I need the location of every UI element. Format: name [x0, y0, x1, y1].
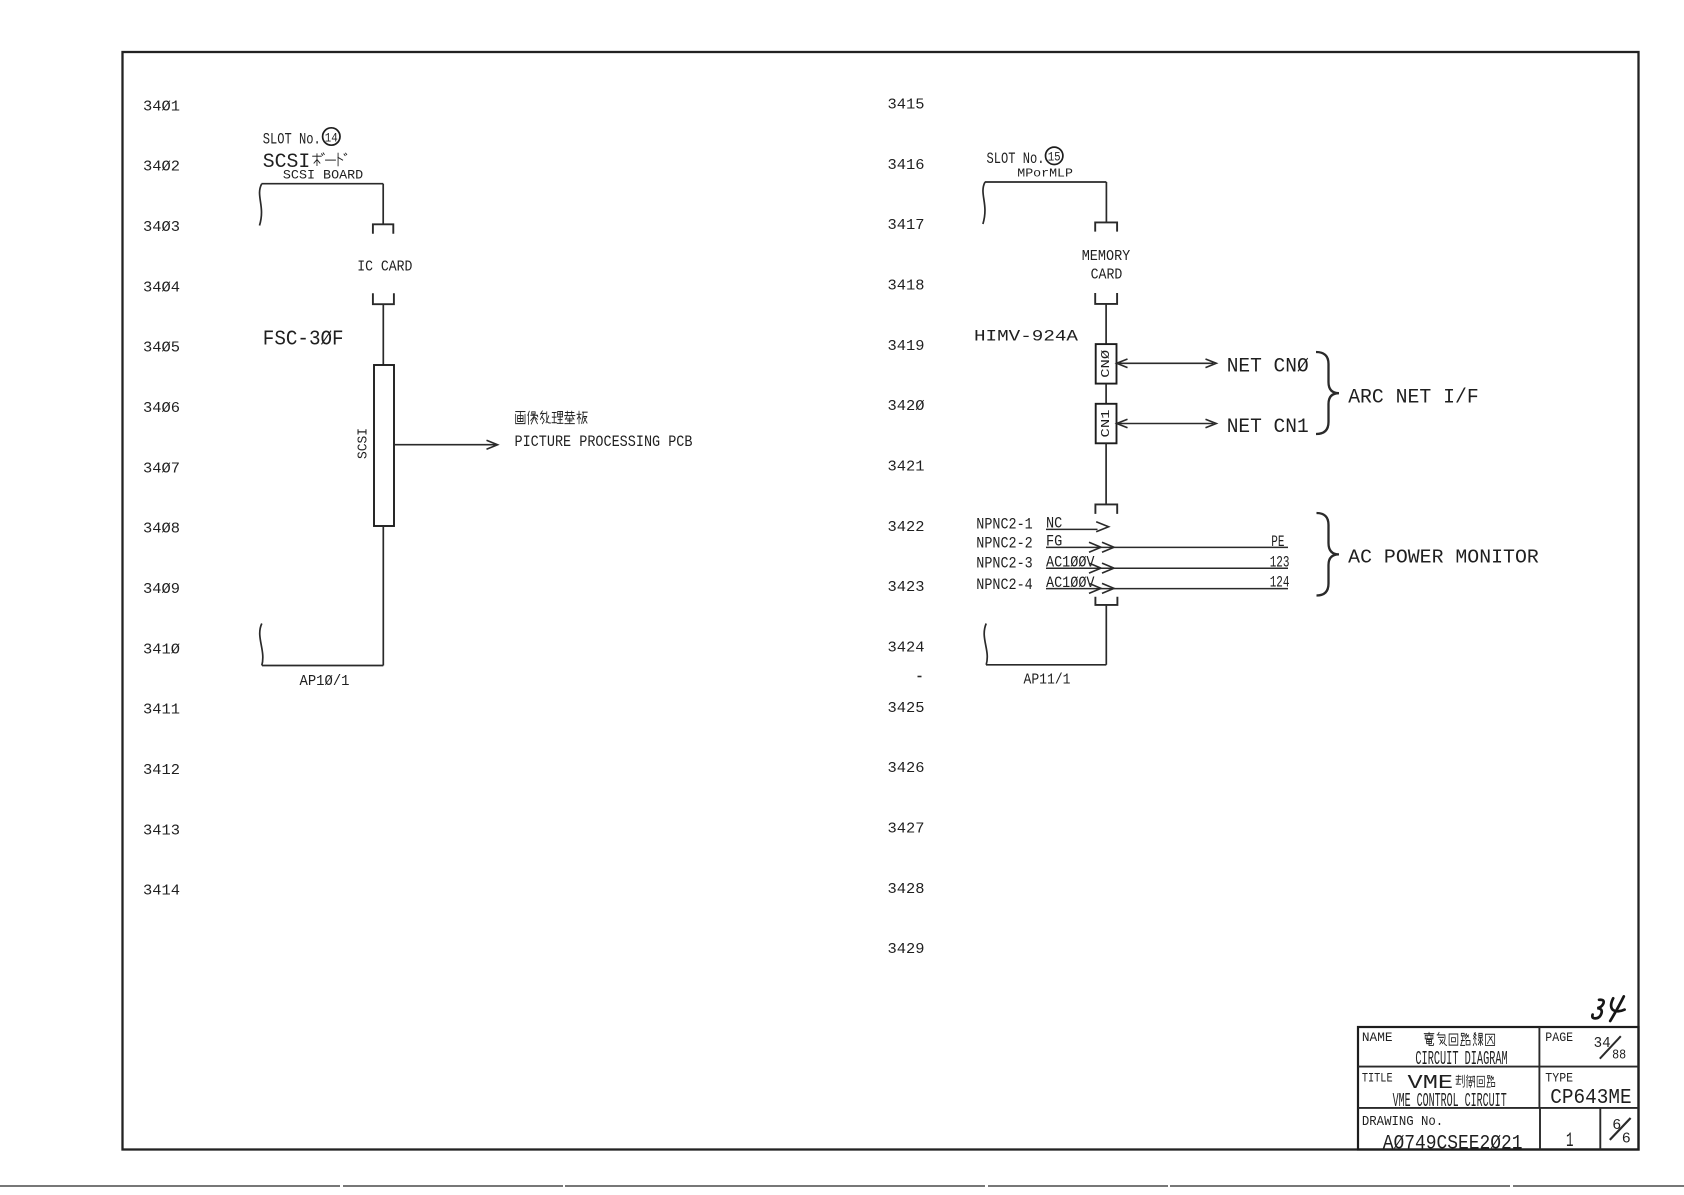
wire: NPNC2 down to AP11 rail	[1105, 605, 1107, 665]
wire NPNC2-3 to terminal 123	[1046, 567, 1288, 569]
svg-text:341Ø: 341Ø	[143, 641, 180, 658]
arrowhead	[487, 440, 498, 449]
svg-text:ARC NET I/F: ARC NET I/F	[1348, 387, 1479, 410]
handwritten page number 34	[1592, 996, 1624, 1021]
svg-text:6: 6	[1622, 1130, 1631, 1147]
connector: IC CARD plug (top half)	[373, 224, 393, 234]
wire: memory card to CN0	[1105, 304, 1107, 344]
wire: NET CN1 double arrow	[1119, 423, 1214, 425]
title block page/rev divider	[1599, 1108, 1601, 1150]
svg-text:3412: 3412	[143, 762, 180, 779]
svg-text:IC CARD: IC CARD	[357, 259, 412, 275]
double chevron arrow on NPNC2-4 wire	[1089, 583, 1101, 593]
svg-text:HIMV-924A: HIMV-924A	[974, 327, 1078, 345]
svg-text:NET CNØ: NET CNØ	[1227, 356, 1309, 379]
wire: NET CN0 double arrow	[1119, 362, 1214, 364]
svg-text:NAME: NAME	[1362, 1030, 1393, 1045]
svg-text:NET CN1: NET CN1	[1227, 416, 1309, 439]
svg-text:PICTURE PROCESSING PCB: PICTURE PROCESSING PCB	[515, 433, 693, 451]
svg-text:MPorMLP: MPorMLP	[1017, 167, 1073, 180]
svg-text:MEMORY: MEMORY	[1082, 248, 1131, 265]
svg-text:342Ø: 342Ø	[888, 398, 925, 415]
tick mark below 3424	[918, 676, 922, 678]
label picture processing PCB (japanese)	[516, 412, 525, 424]
svg-text:NPNC2-3: NPNC2-3	[976, 555, 1032, 573]
wire: AP10 bottom rail	[262, 665, 383, 667]
wire NPNC2-2 to terminal PE	[1046, 546, 1288, 548]
svg-text:14: 14	[325, 131, 338, 145]
wire: CN0 to CN1	[1105, 384, 1107, 404]
brace AC POWER MONITOR	[1317, 513, 1340, 596]
svg-text:34Ø7: 34Ø7	[143, 460, 180, 477]
connector CN0	[1096, 344, 1117, 384]
svg-text:3415: 3415	[888, 97, 925, 114]
svg-text:34Ø6: 34Ø6	[143, 400, 180, 417]
svg-text:SLOT No.: SLOT No.	[263, 130, 321, 148]
svg-text:FSC-3ØF: FSC-3ØF	[263, 328, 344, 352]
wire NPNC2-1 stub with arrow	[1046, 528, 1098, 530]
svg-text:34Ø1: 34Ø1	[143, 98, 180, 115]
brace ARC NET I/F	[1316, 352, 1339, 434]
svg-text:34Ø9: 34Ø9	[143, 581, 180, 598]
svg-text:34Ø5: 34Ø5	[143, 340, 180, 357]
svg-text:124: 124	[1270, 574, 1290, 592]
connector: NPNC2 receptacle (bottom half)	[1095, 597, 1117, 605]
break squiggle at SCSI board rail	[260, 184, 262, 226]
wire: SCSI board bus top rail	[261, 183, 383, 185]
svg-text:CN1: CN1	[1099, 410, 1113, 438]
wire: arrow to picture processing PCB	[394, 444, 496, 446]
connector: MEMORY CARD plug (top half)	[1095, 222, 1117, 231]
svg-text:3427: 3427	[888, 821, 925, 838]
svg-text:CIRCUIT DIAGRAM: CIRCUIT DIAGRAM	[1415, 1048, 1507, 1070]
svg-text:SCSI BOARD: SCSI BOARD	[283, 169, 363, 183]
svg-text:34Ø3: 34Ø3	[143, 219, 180, 236]
svg-text:SCSI: SCSI	[357, 428, 372, 459]
svg-text:3411: 3411	[143, 702, 180, 719]
component: SCSI interface (vertical card)	[374, 365, 394, 526]
svg-text:3424: 3424	[888, 640, 925, 657]
svg-text:3428: 3428	[888, 881, 925, 898]
wire: AP11 bottom rail	[986, 664, 1106, 666]
svg-text:TITLE: TITLE	[1362, 1071, 1393, 1086]
double chevron arrow on NPNC2-2 wire	[1089, 542, 1101, 552]
svg-text:3413: 3413	[143, 822, 180, 839]
svg-text:TYPE: TYPE	[1545, 1071, 1573, 1086]
title block row divider 1	[1358, 1066, 1639, 1068]
svg-text:3429: 3429	[888, 941, 925, 958]
wire: CN1 down to NPNC2 connector	[1105, 443, 1107, 504]
svg-text:CNØ: CNØ	[1099, 350, 1113, 378]
wire: IC CARD to SCSI interface box	[382, 304, 384, 365]
svg-text:3423: 3423	[888, 579, 925, 596]
svg-text:SLOT No.: SLOT No.	[987, 150, 1045, 168]
wire: drop to IC CARD connector	[382, 184, 384, 225]
title block row divider 2	[1358, 1107, 1639, 1109]
svg-text:CP643ME: CP643ME	[1550, 1087, 1631, 1110]
svg-text:NPNC2-1: NPNC2-1	[976, 515, 1032, 533]
svg-text:3417: 3417	[888, 217, 925, 234]
circled slot number 15	[1046, 147, 1063, 164]
svg-text:34Ø4: 34Ø4	[143, 279, 180, 296]
connector: MEMORY CARD receptacle (bottom half)	[1095, 293, 1117, 304]
svg-text:NPNC2-4: NPNC2-4	[976, 576, 1032, 594]
title block column divider lower	[1539, 1108, 1541, 1150]
connector: IC CARD receptacle (bottom half)	[373, 293, 394, 304]
svg-text:15: 15	[1048, 151, 1061, 165]
svg-text:NPNC2-2: NPNC2-2	[976, 535, 1032, 553]
wire: SCSI box down to AP10 rail	[382, 526, 384, 666]
svg-text:AP1Ø/1: AP1Ø/1	[300, 674, 350, 690]
break squiggle at MP rail	[983, 182, 985, 224]
svg-text:3416: 3416	[888, 157, 925, 174]
label circuit diagram (japanese)	[1424, 1032, 1434, 1045]
svg-text:123: 123	[1270, 553, 1290, 571]
connector CN1	[1096, 404, 1117, 444]
svg-text:3418: 3418	[888, 278, 925, 295]
double chevron arrow on NPNC2-3 wire	[1089, 563, 1101, 573]
break squiggle at AP11 rail	[984, 624, 987, 665]
svg-text:34Ø2: 34Ø2	[143, 159, 180, 176]
svg-text:3421: 3421	[888, 459, 925, 476]
svg-text:3414: 3414	[143, 883, 180, 900]
svg-text:34Ø8: 34Ø8	[143, 521, 180, 538]
break squiggle at AP10 rail	[260, 624, 263, 666]
svg-text:PAGE: PAGE	[1545, 1030, 1573, 1045]
wire: MP bus top rail	[985, 181, 1107, 183]
svg-text:3419: 3419	[888, 338, 925, 355]
svg-text:PE: PE	[1271, 533, 1284, 551]
svg-text:AC POWER MONITOR: AC POWER MONITOR	[1348, 546, 1539, 568]
svg-text:3422: 3422	[888, 519, 925, 536]
svg-text:3426: 3426	[888, 760, 925, 777]
connector: NPNC2 plug (top half)	[1095, 504, 1117, 514]
svg-text:3425: 3425	[888, 700, 925, 717]
svg-text:1: 1	[1566, 1130, 1574, 1153]
wire NPNC2-4 to terminal 124	[1046, 588, 1288, 590]
wire: drop to MEMORY CARD connector	[1105, 182, 1107, 222]
title block outer frame	[1358, 1027, 1639, 1150]
svg-text:AP11/1: AP11/1	[1024, 673, 1071, 689]
scanner page edge (dashed)	[0, 1185, 1684, 1187]
svg-text:DRAWING No.: DRAWING No.	[1362, 1114, 1443, 1130]
title block column divider upper	[1538, 1027, 1540, 1108]
svg-text:88: 88	[1612, 1048, 1626, 1063]
circled slot number 14	[323, 128, 340, 145]
svg-text:CARD: CARD	[1091, 267, 1123, 284]
svg-text:AØ749CSEE2Ø21: AØ749CSEE2Ø21	[1383, 1132, 1523, 1155]
svg-text:VME CONTROL CIRCUIT: VME CONTROL CIRCUIT	[1393, 1090, 1507, 1112]
